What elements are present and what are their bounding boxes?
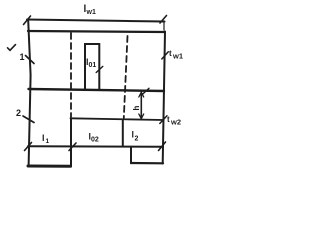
svg-text:t: t	[167, 115, 170, 124]
svg-text:2: 2	[16, 108, 21, 118]
svg-text:02: 02	[91, 137, 99, 144]
svg-text:1: 1	[46, 138, 50, 145]
svg-text:w1: w1	[86, 9, 96, 16]
svg-text:t: t	[169, 49, 172, 58]
svg-text:1: 1	[20, 52, 25, 62]
svg-text:h: h	[132, 105, 141, 110]
svg-text:2: 2	[135, 136, 139, 143]
svg-text:w2: w2	[170, 118, 181, 127]
svg-text:01: 01	[89, 62, 97, 69]
svg-text:l: l	[42, 133, 45, 143]
svg-text:w1: w1	[172, 52, 183, 61]
